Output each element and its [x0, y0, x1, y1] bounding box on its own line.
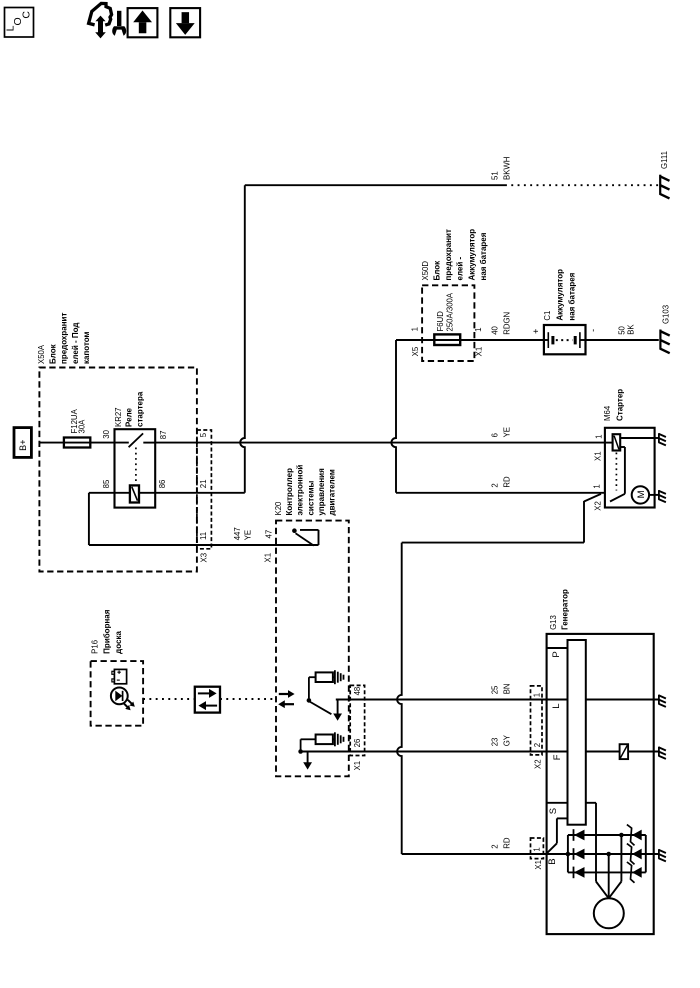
svg-text:21: 21 [199, 480, 208, 489]
generator diode row 1 wire [568, 834, 646, 836]
svg-text:P16Приборнаядоска: P16Приборнаядоска [91, 609, 123, 654]
relay plunger dotted link [135, 448, 137, 485]
generator regulator bar [568, 640, 586, 825]
svg-text:X1: X1 [353, 761, 362, 771]
wire 51 BKWH (dotted part to ground) [505, 184, 659, 186]
svg-text:X2: X2 [594, 501, 603, 511]
svg-text:2RD: 2RD [490, 476, 511, 488]
svg-text:47: 47 [265, 530, 274, 539]
svg-text:+: + [531, 329, 541, 334]
generator B row wire [547, 853, 659, 855]
serial data gateway icon [195, 687, 220, 713]
svg-text:C: C [21, 11, 33, 19]
svg-text:X50DБлокпредохранителей -Аккум: X50DБлокпредохранителей -Аккумуляторная … [421, 229, 488, 281]
generator P divider [547, 647, 568, 649]
wire battery positive feed [396, 339, 544, 341]
wire 25 BN K20 pin48 to generator L [336, 699, 547, 701]
phase tap vertical 2 [608, 854, 610, 882]
wire relay 86 to junction [155, 492, 245, 494]
svg-text:X5: X5 [411, 346, 420, 356]
battery C1 box [544, 325, 586, 354]
fuse F6UD [434, 334, 460, 345]
generator S sense link [557, 817, 568, 819]
relay switch contact stub [143, 442, 155, 444]
serial data dotted wire P16 to gateway [143, 698, 195, 700]
rectifier diode 3 [573, 867, 575, 879]
ECM K20 dashed box [276, 521, 349, 777]
generator right zener bus [645, 835, 647, 872]
starter motor ground wire [649, 494, 659, 496]
generator phase sense wire (bar to stator) [586, 802, 596, 804]
svg-text:X3: X3 [200, 553, 209, 563]
up-arrow button [128, 8, 158, 37]
svg-text:26: 26 [353, 739, 362, 748]
svg-text:25BN: 25BN [490, 683, 511, 694]
generator left diode bus [567, 835, 569, 872]
svg-text:K20Контроллерэлектроннойсистем: K20Контроллерэлектроннойсистемыуправлени… [274, 465, 337, 516]
svg-text:87: 87 [159, 431, 168, 440]
svg-text:G103: G103 [661, 305, 670, 324]
svg-text:40RDGN: 40RDGN [490, 312, 511, 335]
svg-text:F12UA30A: F12UA30A [70, 408, 86, 433]
svg-text:P: P [551, 651, 562, 657]
generator L wire to ground [586, 699, 659, 701]
junction dot B/bus [566, 852, 571, 857]
svg-text:2RD: 2RD [490, 837, 511, 849]
svg-text:X1: X1 [593, 451, 602, 461]
svg-text:23GY: 23GY [490, 734, 511, 746]
serial data dotted wire gateway to K20 [220, 698, 276, 700]
down-arrow button [170, 8, 200, 37]
svg-text:C1Аккумуляторная батарея: C1Аккумуляторная батарея [543, 269, 577, 321]
K20 internal supply comb 1 [334, 670, 336, 684]
instrument panel P16 dashed box [91, 661, 144, 726]
generator feed vertical (hops over 25BN and 23GY) [397, 543, 402, 854]
svg-text:-: - [588, 329, 598, 332]
starter solenoid ground wire [620, 437, 654, 439]
ground G103 [659, 330, 661, 350]
svg-text:M64Стартер: M64Стартер [603, 389, 625, 421]
generator X2 connector dashed box [531, 686, 543, 755]
starter motor [632, 486, 649, 503]
wire B+ feed to fuse F12UA and relay 30 [39, 442, 128, 444]
K20 generator-lamp driver: supply resistor [316, 672, 333, 682]
svg-text:2: 2 [533, 743, 542, 747]
K20 driver 1 continuation arrow [337, 700, 339, 715]
wire 6 YE relay 87 to starter solenoid [155, 442, 605, 444]
svg-text:B+: B+ [18, 440, 28, 451]
phase tap vertical 1 [620, 835, 622, 882]
junction dot phase 2 [606, 852, 611, 857]
generator ground (L) [658, 695, 660, 705]
generator L stub (left) [547, 699, 568, 701]
svg-text:1: 1 [474, 328, 483, 332]
avalanche diode 2 [627, 844, 635, 865]
relay coil row wire [115, 492, 156, 494]
svg-text:F: F [552, 754, 563, 760]
wire 2 RD into generator B [402, 853, 547, 855]
svg-text:X1: X1 [534, 860, 543, 870]
wire from 51 BKWH down to relay pin 86 (hops over starter-relay feed) [240, 185, 245, 493]
starter M64 box [605, 428, 655, 508]
svg-text:85: 85 [102, 479, 111, 488]
fuse block X50D dashed box [422, 285, 474, 361]
terminal B+ [14, 428, 31, 458]
svg-text:G13Генератор: G13Генератор [549, 589, 569, 630]
svg-text:50BK: 50BK [618, 324, 636, 335]
svg-text:G111: G111 [660, 151, 669, 169]
relay switch arm [129, 433, 144, 447]
svg-text:KR27Релестартера: KR27Релестартера [114, 391, 144, 427]
svg-text:1: 1 [532, 847, 541, 851]
rectifier diode 2 [573, 848, 575, 860]
svg-text:447YE: 447YE [233, 527, 253, 540]
svg-text:51BKWH: 51BKWH [490, 157, 511, 180]
svg-text:1: 1 [532, 693, 541, 697]
generator F stub (left) [547, 751, 568, 753]
stator V links [596, 882, 609, 899]
svg-text:30: 30 [102, 429, 111, 438]
svg-text:1: 1 [411, 327, 420, 331]
wire 2 RD to starter solenoid [396, 492, 605, 494]
svg-text:11: 11 [199, 532, 208, 540]
fuse block X50A dashed box [39, 368, 197, 572]
K20 field driver: supply resistor [316, 735, 333, 745]
svg-text:X50AБлокпредохранителей - Подк: X50AБлокпредохранителей - Подкапотом [37, 313, 91, 364]
wire relay 85 branch [89, 492, 115, 494]
generator F wire to ground [586, 751, 620, 753]
K20 driver 2 continuation arrow [307, 752, 309, 763]
avalanche diode 3 [627, 862, 635, 883]
K20 internal supply comb 2 [334, 732, 336, 746]
generator ground (B) [658, 849, 660, 859]
wire 50 BK battery to ground [586, 339, 659, 341]
P16 charge indicator lamp [111, 688, 128, 705]
generator field resistor [620, 744, 629, 759]
relay coil [130, 485, 139, 502]
svg-text:1: 1 [595, 435, 604, 439]
battery C1 plates [547, 332, 549, 348]
generator G13 box [547, 634, 654, 934]
svg-text:L: L [551, 703, 562, 708]
ground G111 [659, 175, 661, 195]
generator X1 connector dashed box [531, 838, 544, 859]
svg-text:S: S [548, 808, 559, 814]
branch to generator: diagonal [584, 494, 601, 502]
starter contact arm [610, 494, 625, 502]
svg-text:48: 48 [353, 687, 362, 696]
svg-text:B: B [547, 858, 558, 864]
svg-text:M: M [636, 490, 647, 498]
svg-text:X1: X1 [475, 347, 484, 357]
starter plunger wire [620, 446, 625, 448]
K20 starter-relay driver switch [276, 544, 319, 546]
K20 connector X1 dashed box (pins 48/26) [350, 685, 364, 755]
wire 23 GY K20 pin26 to generator F [301, 751, 547, 753]
starter plunger dotted link [615, 453, 617, 491]
svg-text:5: 5 [199, 432, 208, 437]
starter ground (solenoid) [658, 433, 660, 443]
branch to generator: down, left, down [583, 501, 585, 543]
junction dot phase 1 [619, 833, 624, 838]
relay KR27 box [115, 429, 156, 507]
rotor winding circle [594, 898, 624, 928]
jump-to navigation icon [89, 3, 112, 25]
generator diode row 3 wire [568, 871, 646, 873]
starter solenoid coil [605, 442, 613, 444]
P16 battery telltale icon [114, 669, 126, 683]
wire fuse F6UD down to starter/generator feed (hops over 6YE) [391, 340, 396, 493]
svg-text:6YE: 6YE [490, 427, 511, 437]
K20 driver 2 link [301, 738, 316, 740]
K20 serial data arrows [279, 693, 289, 695]
connector X3 dashed box [197, 430, 212, 549]
svg-text:X1: X1 [264, 553, 273, 563]
K20 driver 1 switch [309, 676, 316, 678]
generator S divider [547, 802, 568, 804]
svg-text:86: 86 [158, 480, 167, 489]
fuse F12UA [64, 438, 90, 448]
generator ground (F) [658, 747, 660, 757]
wire 51 BKWH horizontal (solid part) [245, 184, 505, 186]
starter ground (motor) [658, 490, 660, 500]
svg-text:F6UD250A/300A: F6UD250A/300A [436, 292, 455, 331]
avalanche diode 1 [627, 825, 635, 846]
svg-text:1: 1 [593, 484, 602, 488]
svg-text:X2: X2 [534, 759, 543, 769]
rectifier diode 1 [573, 829, 575, 841]
LOC link box icon [5, 8, 34, 38]
